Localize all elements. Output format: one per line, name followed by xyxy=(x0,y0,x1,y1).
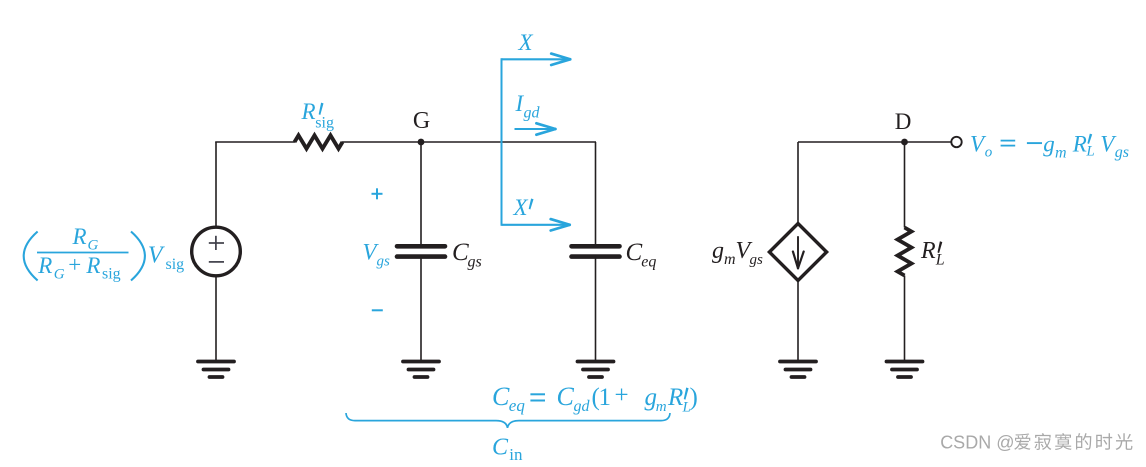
svg-text:gd: gd xyxy=(524,105,541,122)
svg-text:gs: gs xyxy=(750,252,764,268)
svg-text:R: R xyxy=(37,253,52,278)
svg-text:C: C xyxy=(452,239,469,266)
svg-text:X: X xyxy=(518,30,534,55)
svg-text:): ) xyxy=(690,384,698,411)
svg-text:gs: gs xyxy=(1115,144,1129,161)
svg-text:eq: eq xyxy=(509,396,526,415)
svg-text:R: R xyxy=(85,253,100,278)
svg-text:CSDN @: CSDN @ xyxy=(940,433,1014,453)
svg-text:1: 1 xyxy=(599,384,612,411)
svg-text:C: C xyxy=(557,382,575,411)
svg-text:+: + xyxy=(615,382,629,409)
svg-text:R: R xyxy=(1072,132,1087,157)
svg-text:m: m xyxy=(724,251,736,268)
svg-text:C: C xyxy=(492,435,509,461)
svg-text:m: m xyxy=(1055,145,1067,162)
svg-text:L: L xyxy=(1085,144,1094,160)
svg-text:C: C xyxy=(492,382,510,411)
svg-text:g: g xyxy=(712,238,724,264)
svg-text:gd: gd xyxy=(574,398,591,415)
svg-text:sig: sig xyxy=(102,266,121,283)
svg-text:G: G xyxy=(413,108,430,134)
svg-text:in: in xyxy=(509,445,523,462)
svg-text:gs: gs xyxy=(377,254,391,270)
svg-text:R: R xyxy=(667,384,683,411)
svg-text:o: o xyxy=(985,145,993,161)
svg-text:L: L xyxy=(935,252,945,269)
svg-text:D: D xyxy=(895,109,912,134)
svg-text:sig: sig xyxy=(166,256,185,273)
svg-text:G: G xyxy=(54,267,65,283)
svg-text:eq: eq xyxy=(641,254,656,271)
svg-text:C: C xyxy=(626,239,643,266)
svg-text:X: X xyxy=(513,195,529,220)
svg-text:g: g xyxy=(1043,132,1055,157)
svg-text:gs: gs xyxy=(468,254,482,271)
svg-text:V: V xyxy=(148,243,165,269)
svg-text:m: m xyxy=(656,399,667,415)
svg-text:G: G xyxy=(88,238,99,254)
svg-text:R: R xyxy=(72,224,87,249)
svg-text:+: + xyxy=(68,252,81,277)
svg-text:sig: sig xyxy=(315,115,334,132)
svg-text:R: R xyxy=(301,99,316,124)
svg-text:R: R xyxy=(920,238,936,264)
